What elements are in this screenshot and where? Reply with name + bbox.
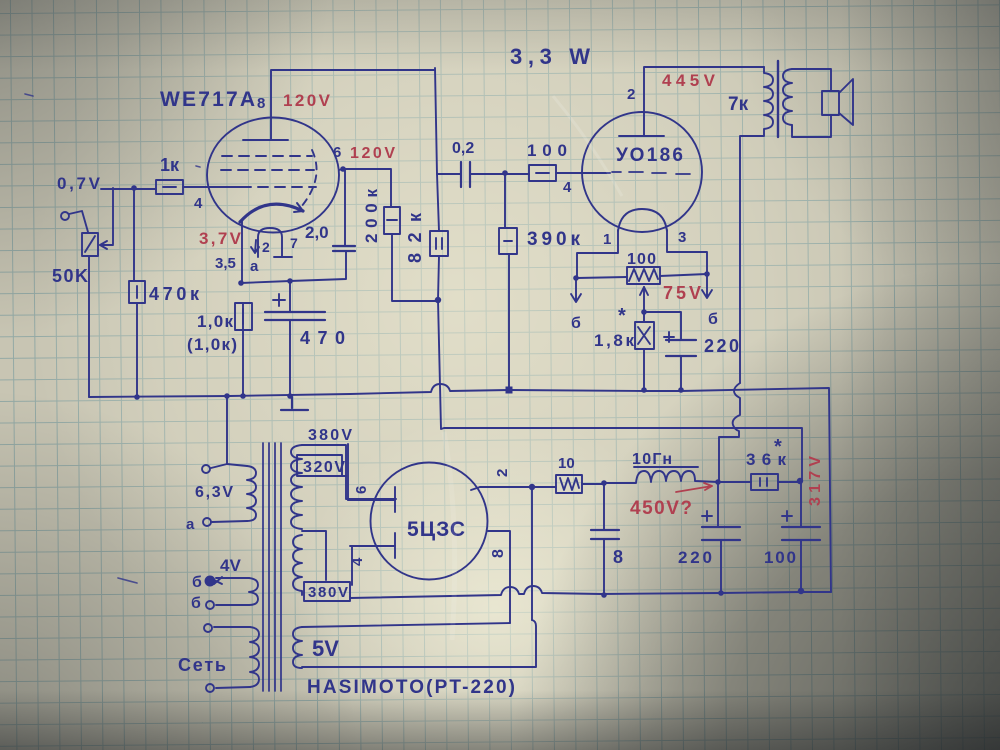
svg-text:100: 100 [527,141,567,160]
svg-text:б: б [192,574,202,591]
svg-text:УО186: УО186 [616,145,683,166]
svg-text:100: 100 [764,548,796,567]
svg-text:*: * [774,436,782,458]
svg-text:220: 220 [678,548,712,567]
svg-text:Сеть: Сеть [178,655,226,675]
svg-text:5V: 5V [312,636,339,661]
svg-text:7: 7 [290,235,298,251]
svg-text:WE717A: WE717A [160,88,255,111]
svg-text:3,7V: 3,7V [199,229,242,248]
svg-text:2: 2 [627,86,635,103]
svg-text:а: а [186,516,195,533]
svg-text:2: 2 [494,469,511,477]
svg-text:445V: 445V [662,71,716,90]
svg-text:2,0: 2,0 [305,223,329,242]
svg-text:3,3 W: 3,3 W [510,44,590,69]
svg-text:4: 4 [349,557,366,566]
svg-text:3,5: 3,5 [215,255,236,272]
svg-text:3: 3 [678,229,686,246]
svg-text:100: 100 [627,251,656,268]
svg-text:4: 4 [194,195,203,212]
svg-text:7к: 7к [728,94,749,115]
svg-text:380V: 380V [308,427,352,444]
svg-text:4V: 4V [220,556,241,575]
svg-text:б: б [571,315,581,332]
svg-text:120V: 120V [350,145,395,162]
svg-text:1,0к: 1,0к [197,312,233,331]
svg-text:120V: 120V [283,91,331,110]
svg-text:470: 470 [300,328,345,348]
svg-text:450V?: 450V? [630,498,692,519]
svg-text:2: 2 [262,239,270,255]
svg-text:(1,0к): (1,0к) [187,335,237,354]
svg-text:82к: 82к [405,212,425,263]
svg-text:8: 8 [257,95,265,112]
svg-text:HASIMOTO(PT-220): HASIMOTO(PT-220) [307,677,515,698]
svg-text:*: * [618,305,626,327]
svg-text:б: б [708,311,718,328]
svg-text:0,2: 0,2 [452,140,474,157]
svg-text:a: a [250,258,259,275]
svg-text:6,3V: 6,3V [195,484,233,501]
svg-text:1: 1 [603,231,611,248]
svg-text:10: 10 [558,455,575,472]
svg-text:380V: 380V [308,584,348,601]
svg-text:0,7V: 0,7V [57,174,101,193]
svg-text:4: 4 [563,179,572,196]
svg-text:75V: 75V [663,283,701,303]
svg-text:6: 6 [333,144,341,161]
svg-text:8: 8 [490,549,507,558]
svg-text:6: 6 [353,486,370,494]
svg-text:50K: 50K [52,266,88,286]
svg-text:1к: 1к [160,155,180,175]
svg-text:10Гн: 10Гн [632,451,672,468]
svg-text:8: 8 [613,547,623,567]
svg-text:б: б [191,595,201,612]
svg-text:1,8к: 1,8к [594,331,634,350]
svg-text:320V: 320V [303,459,345,476]
svg-text:220: 220 [704,336,739,356]
